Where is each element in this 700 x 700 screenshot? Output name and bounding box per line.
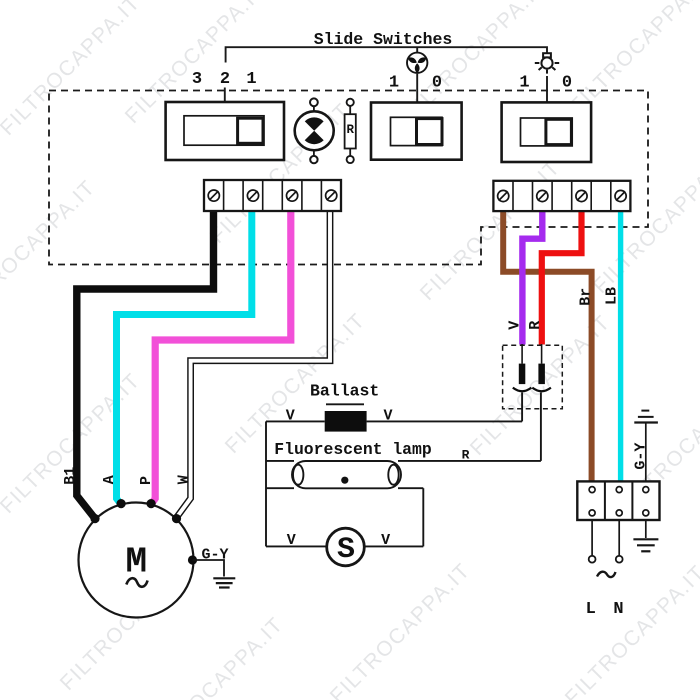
svg-text:L: L [586,600,596,619]
motor ground [193,560,236,588]
lamp holder contacts [513,388,532,392]
switch S3 (light) [502,102,591,162]
svg-text:B1: B1 [62,467,79,485]
svg-text:G-Y: G-Y [633,443,650,470]
mains leads L N [592,520,619,556]
lamp holder dashed box [503,345,563,409]
svg-text:FILTROCAPPA.IT: FILTROCAPPA.IT [0,176,100,325]
fan symbol [407,53,427,74]
svg-text:V: V [286,408,295,425]
svg-text:P: P [138,476,155,485]
mains terminal block [577,481,659,520]
Slide Switches bracket wire [225,47,547,102]
earth G-Y upper [634,411,658,482]
svg-text:FILTROCAPPA.IT: FILTROCAPPA.IT [0,369,145,518]
wire red R [542,211,582,345]
svg-text:N: N [613,600,623,619]
svg-text:Br: Br [578,288,595,306]
right terminal block [493,181,630,211]
left terminal block [204,180,341,211]
svg-text:Slide Switches: Slide Switches [314,30,453,49]
svg-text:V: V [507,321,524,330]
wire purple V [522,211,542,345]
svg-text:FILTROCAPPA.IT: FILTROCAPPA.IT [0,0,145,140]
ballast circuit wire [266,421,541,546]
svg-text:3: 3 [192,70,202,89]
svg-text:FILTROCAPPA.IT: FILTROCAPPA.IT [566,0,700,118]
svg-text:LB: LB [604,287,621,305]
fluorescent tube [292,461,401,488]
wire brown Br [503,211,591,481]
svg-text:V: V [383,408,392,425]
wire black (motor B1) [77,211,214,519]
starter S [327,528,365,566]
svg-text:FILTROCAPPA.IT: FILTROCAPPA.IT [139,613,288,700]
svg-text:1: 1 [389,74,399,93]
motor M1 [79,499,198,618]
svg-text:R: R [527,321,544,330]
svg-text:1: 1 [519,74,529,93]
dashed enclosure box [49,91,648,265]
svg-text:0: 0 [562,74,572,93]
svg-text:R: R [462,447,470,462]
svg-text:A: A [101,475,118,484]
svg-text:0: 0 [432,74,442,93]
svg-text:W: W [175,475,192,484]
indicator lamp [295,98,334,163]
svg-text:FILTROCAPPA.IT: FILTROCAPPA.IT [561,561,700,700]
switch S2 (fan) [371,103,462,160]
wire magenta (motor P) [151,211,291,505]
wire cyan (motor A) [117,211,252,505]
svg-text:Fluorescent lamp: Fluorescent lamp [274,440,432,459]
svg-text:G-Y: G-Y [202,547,229,564]
svg-text:V: V [381,532,390,549]
resistor R [345,99,356,163]
svg-text:R: R [346,123,354,137]
svg-text:S: S [337,533,355,567]
AC tilde [597,572,616,577]
svg-text:M: M [125,542,147,583]
wire light blue LB [618,211,623,481]
svg-text:FILTROCAPPA.IT: FILTROCAPPA.IT [326,559,475,700]
ballast underline [326,403,364,405]
svg-text:1: 1 [246,70,256,89]
light bulb symbol [535,53,559,73]
svg-text:2: 2 [220,70,230,89]
svg-text:V: V [287,532,296,549]
wire white double-line (motor W) [177,211,331,518]
switch S1 (3-speed) [166,102,284,160]
mains earth lead [633,520,658,551]
ballast [325,411,367,432]
lamp holder leads [522,344,542,461]
svg-text:FILTROCAPPA.IT: FILTROCAPPA.IT [589,149,700,298]
lamp holder pins [519,364,526,385]
svg-text:Ballast: Ballast [310,381,379,400]
